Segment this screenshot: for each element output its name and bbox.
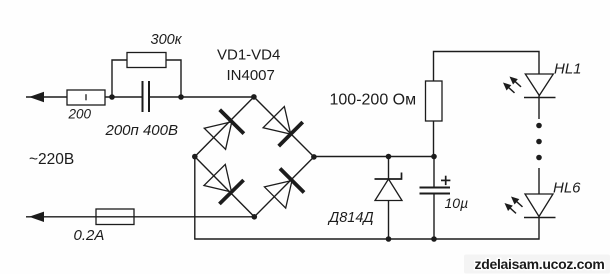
node A junction [109,94,115,100]
node chain dot 2 [536,139,542,145]
wire capacitor C1 right plate to node B [150,96,254,98]
wire resistor R2 right lead down to node B [166,60,181,97]
node capacitor top junction [431,154,437,160]
svg-text:~220В: ~220В [29,151,74,168]
wire LED HL1 cathode lead [538,96,540,120]
diode VD2 top-right of bridge [262,105,303,146]
capacitor C1 200n 400V [143,81,150,112]
node L bridge left junction [192,154,198,160]
resistor R1 200 [67,90,105,105]
wire LED chain continuation to HL6 [538,168,540,194]
node capacitor bottom junction [431,236,437,242]
zener diode VD5 Д814Д [375,173,403,201]
svg-text:IN4007: IN4007 [227,67,275,84]
wire negative rail from node L along bottom to HL6 [195,157,539,239]
svg-text:0.2A: 0.2A [74,227,105,244]
wire bridge edge T-R [254,97,314,157]
svg-text:300к: 300к [151,32,183,48]
wire bridge edge L-Bo [195,157,255,217]
wire bridge edge Bo-R [254,157,314,217]
node B junction [178,94,184,100]
wire top AC line [26,96,67,98]
svg-text:HL1: HL1 [554,61,582,78]
wire bridge edge L-T [195,97,254,157]
watermark background halo [464,255,610,274]
node zener bottom junction [386,236,392,242]
arrow AC top terminal [29,92,44,102]
svg-text:100-200 Ом: 100-200 Ом [330,92,417,109]
arrow AC bottom terminal [29,212,44,222]
svg-text:Д814Д: Д814Д [327,210,374,226]
LED HL1 [524,74,556,98]
diode VD4 bottom-right of bridge [263,169,304,210]
arrow HL6 emission 1 [509,194,525,210]
node T bridge top junction [251,94,257,100]
svg-text:VD1-VD4: VD1-VD4 [217,46,280,63]
fuse FU1 0.2A [96,209,134,225]
capacitor C2 10u electrolytic [420,188,451,194]
wire node A riser up [112,60,127,97]
node chain dot 3 [536,155,542,161]
arrow HL6 emission 2 [502,200,518,216]
node Bo bridge bottom junction [252,214,258,220]
diode VD1 top-left of bridge [203,110,244,151]
resistor R2 300k [127,53,166,68]
svg-text:200п 400В: 200п 400В [105,122,178,139]
wire resistor R3 top lead over to LED HL1 [434,52,540,82]
svg-text:10µ: 10µ [445,195,469,211]
svg-text:HL6: HL6 [553,180,581,197]
svg-text:200: 200 [68,107,92,122]
arrow HL1 emission 1 [507,74,523,90]
plus sign of C2 [441,176,450,185]
arrow HL1 emission 2 [501,80,517,96]
node chain dot 1 [536,123,542,129]
wire resistor R1 to node A [105,96,142,98]
wire zener VD5 bottom lead [388,201,390,240]
wire positive rail from node R [314,156,434,158]
wire capacitor C2 top lead [433,157,435,188]
wire zener VD5 top lead [388,157,390,180]
node R bridge right junction [311,154,317,160]
resistor R3 100-200 Ohm [426,81,443,121]
node zener top junction [386,154,392,160]
wire bottom AC line through fuse [26,216,254,218]
wire resistor R3 bottom lead [433,121,435,157]
LED HL6 [524,194,556,218]
diode VD3 bottom-left of bridge [203,163,244,204]
svg-text:zdelaisam.ucoz.com: zdelaisam.ucoz.com [475,256,605,272]
wire capacitor C2 bottom lead [433,194,435,240]
